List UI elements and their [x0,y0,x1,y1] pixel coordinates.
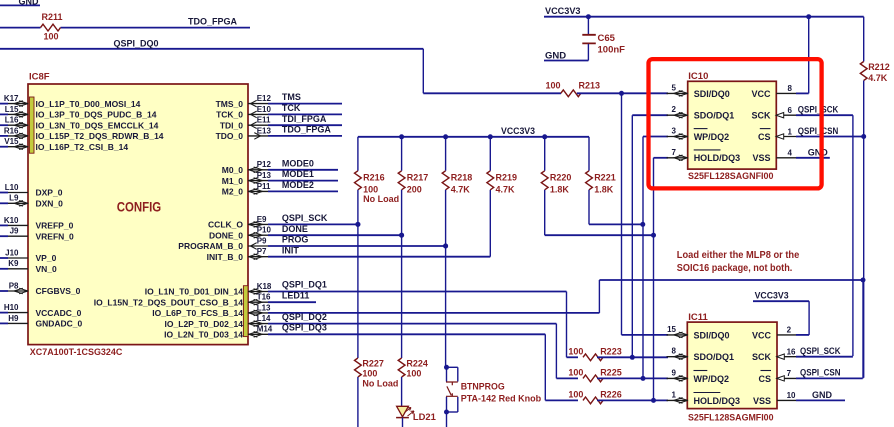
svg-text:TDO_0: TDO_0 [216,131,244,141]
svg-text:1.8K: 1.8K [550,184,570,194]
svg-text:L15: L15 [5,105,19,114]
svg-text:GND: GND [812,390,833,400]
pin 15 IC11 SDI/DQ0 [667,334,688,336]
svg-text:1.8K: 1.8K [594,184,614,194]
resistor R225 100 [583,375,603,382]
svg-text:R226: R226 [600,390,622,400]
svg-text:E9: E9 [257,215,267,224]
svg-text:E10: E10 [257,105,272,114]
svg-text:VCC3V3: VCC3V3 [545,6,581,17]
svg-text:DXN_0: DXN_0 [36,199,64,209]
svg-text:V15: V15 [4,137,19,146]
wire IC10 CS net QSPI_CSN [796,136,864,138]
svg-text:100: 100 [406,369,421,379]
svg-text:VCC: VCC [752,330,772,340]
svg-text:4.7K: 4.7K [451,184,471,194]
svg-text:VSS: VSS [752,153,770,163]
svg-text:VCCADC_0: VCCADC_0 [36,308,82,318]
svg-text:PROGRAM_B_0: PROGRAM_B_0 [178,241,243,251]
svg-text:M0_0: M0_0 [222,165,244,175]
group bar left pins [29,97,34,153]
pin P12 M0_0 net MODE0 [248,169,268,171]
svg-text:SDO/DQ1: SDO/DQ1 [694,352,735,362]
wire WP/DQ2 riser [643,136,668,138]
svg-text:L10: L10 [5,183,19,192]
svg-text:IO_L2N_T0_D03_14: IO_L2N_T0_D03_14 [164,330,243,340]
junction QSPI_DQ0 node [619,91,624,96]
svg-text:M2_0: M2_0 [222,187,244,197]
svg-text:CCLK_O: CCLK_O [208,220,243,230]
wire HOLD/DQ3 riser [654,157,669,159]
svg-text:P13: P13 [257,171,272,180]
wire IC11 SCK net QSPI_SCK [796,356,853,358]
wire SDO/DQ1 riser [632,114,668,116]
svg-text:8: 8 [672,347,677,356]
svg-text:CS: CS [758,132,771,142]
capacitor C65 [582,35,596,44]
svg-text:TCK_0: TCK_0 [216,110,243,120]
pin T16 IO_L15N_T2_DQS_DOUT_CSO_B_14 net LED11 [248,301,268,303]
junction rail [443,134,448,139]
svg-text:8: 8 [788,84,793,93]
pin L13 IO_L6P_T0_FCS_B_14 net QSPI_CSN [248,312,268,314]
svg-text:WP/DQ2: WP/DQ2 [694,132,730,142]
resistor R211 [41,24,61,31]
wire PROG down to BTNPROG [445,246,447,367]
svg-text:K18: K18 [257,282,272,291]
transistor IC10 flash body [688,81,777,169]
svg-text:H10: H10 [4,303,19,312]
junction QSPI_CSN join [861,278,866,283]
svg-text:GND: GND [808,148,829,158]
svg-text:PROG: PROG [282,235,309,245]
svg-text:2: 2 [787,326,792,335]
svg-text:IO_L3N_T0_DQS_EMCCLK_14: IO_L3N_T0_DQS_EMCCLK_14 [36,120,159,130]
svg-text:C65: C65 [598,33,616,44]
resistor R221 1.8K [588,137,590,171]
svg-text:S25FL128SAGMFI00: S25FL128SAGMFI00 [688,412,774,423]
power VCC3V3 at IC11 [753,300,809,302]
pin E12 TMS_0 net TMS [248,103,268,105]
svg-text:VN_0: VN_0 [36,264,58,274]
svg-text:SDI/DQ0: SDI/DQ0 [694,89,730,99]
svg-text:QSPI_DQ0: QSPI_DQ0 [114,39,159,49]
svg-text:100: 100 [362,369,377,379]
svg-text:QSPI_DQ3: QSPI_DQ3 [282,323,327,333]
resistor R226 100 [583,397,603,404]
pin K9 VN_0 [0,268,8,270]
wire INIT to R219 [268,256,490,258]
pin L9 DXN_0 [0,202,8,204]
pin V15 IO_L16P_T2_CSI_B_14 [0,146,8,148]
svg-text:QSPI_CSN: QSPI_CSN [798,126,839,136]
svg-text:M1_0: M1_0 [222,176,244,186]
wire C65 to GND [587,44,589,61]
svg-text:4.7K: 4.7K [868,73,888,83]
LED LD21 [397,406,409,417]
svg-text:SCK: SCK [752,352,772,362]
svg-text:VREFN_0: VREFN_0 [36,231,75,241]
svg-text:VCC: VCC [751,89,771,99]
pin P13 M1_0 net MODE1 [248,180,268,182]
svg-text:100: 100 [568,368,583,378]
svg-text:K17: K17 [4,94,19,103]
svg-text:QSPI_CSN: QSPI_CSN [800,368,841,378]
svg-text:R221: R221 [594,172,616,182]
svg-text:L9: L9 [9,194,19,203]
svg-text:QSPI_DQ1: QSPI_DQ1 [282,280,327,290]
svg-text:H9: H9 [8,314,19,323]
svg-text:TDI_FPGA: TDI_FPGA [282,114,327,124]
wire R221 to QSPI_DQ2 riser [588,190,590,225]
pin R16 IO_L15P_T2_DQS_RDWR_B_14 [0,135,8,137]
junction R212 CSN [861,134,866,139]
svg-text:R223: R223 [600,346,622,356]
svg-text:M14: M14 [257,325,273,334]
svg-text:R217: R217 [407,172,429,182]
svg-text:100nF: 100nF [598,44,626,55]
svg-text:1: 1 [788,127,793,136]
svg-text:100: 100 [363,184,378,194]
svg-text:TMS: TMS [282,92,301,102]
svg-text:CFGBVS_0: CFGBVS_0 [36,286,81,296]
wire VCC3V3 to C65 [587,17,589,34]
wire R224 to LD21 [401,377,403,406]
svg-text:TDO_FPGA: TDO_FPGA [188,17,238,27]
svg-text:IO_L15N_T2_DQS_DOUT_CSO_B_14: IO_L15N_T2_DQS_DOUT_CSO_B_14 [94,297,244,307]
svg-text:CONFIG: CONFIG [117,200,162,216]
svg-text:INIT: INIT [282,245,300,255]
svg-text:4: 4 [788,149,793,158]
pin P7 INIT_B_0 net INIT [248,256,268,258]
svg-text:LD21: LD21 [413,412,437,423]
svg-text:7: 7 [672,148,677,157]
svg-text:L13: L13 [257,303,271,312]
svg-text:BTNPROG: BTNPROG [461,382,505,393]
svg-text:IO_L2P_T0_D02_14: IO_L2P_T0_D02_14 [165,319,244,329]
push button BTNPROG [444,365,449,370]
wire TDO_FPGA net [0,27,41,29]
wire R225 to IC11 pin9 [597,377,668,379]
wire R216 to QSPI_SCK [357,190,359,225]
svg-text:TDO_FPGA: TDO_FPGA [282,125,332,135]
svg-text:Load either the MLP8 or the: Load either the MLP8 or the [677,250,800,261]
svg-text:R216: R216 [363,172,385,182]
svg-text:LED11: LED11 [282,290,310,300]
svg-text:4.7K: 4.7K [496,184,516,194]
pin 8 IC11 SDO/DQ1 [667,356,688,358]
pin 1 IC11 HOLD/DQ3 [667,399,688,401]
wire QSPI_DQ1 to R223 [268,291,567,293]
pin P10 DONE_0 net DONE [248,234,268,236]
svg-text:100: 100 [44,32,59,42]
pin J10 VP_0 [0,257,8,259]
pin L10 DXP_0 [0,192,8,194]
svg-text:QSPI_SCK: QSPI_SCK [798,104,839,114]
wire QSPI_CSN riser down [863,137,865,378]
resistor R212 4.7K [860,62,867,81]
svg-text:VP_0: VP_0 [36,253,57,263]
svg-text:R16: R16 [4,126,19,135]
svg-text:100: 100 [568,390,583,400]
resistor R227 100 No Load [355,358,362,377]
wire LED11 stub [268,301,316,303]
wire R226 to IC11 pin1 [597,399,668,401]
power VCC3V3 pullup rail [358,136,589,138]
wire QSPI_SCK down to R227 [357,224,359,358]
svg-text:TDI_0: TDI_0 [220,120,243,130]
svg-text:GND: GND [545,50,566,61]
wire R212 to QSPI_CSN [863,81,865,138]
pin J9 VREFN_0 [0,235,8,237]
pin H10 VCCADC_0 [0,312,8,314]
wire QSPI_DQ3 to R226 [268,333,545,335]
junction rail [542,134,547,139]
svg-text:MODE0: MODE0 [282,158,314,168]
wire QSPI_CSN riser bottom [862,280,864,378]
pin P9 PROGRAM_B_0 net PROG [248,245,268,247]
svg-text:10: 10 [787,391,796,400]
svg-text:P9: P9 [257,236,267,245]
wire IC10 VCC to rail [796,92,809,94]
pin E9 CCLK_O net QSPI_SCK [248,223,268,225]
svg-text:16: 16 [787,348,796,357]
svg-text:QSPI_DQ2: QSPI_DQ2 [282,312,327,322]
svg-text:DONE_0: DONE_0 [209,230,243,240]
resistor R224 100 [398,358,405,377]
svg-text:IC10: IC10 [688,71,708,82]
svg-text:TMS_0: TMS_0 [216,99,244,109]
wire R227 down [357,377,359,427]
pin K10 VREFP_0 [0,224,8,226]
pin H9 GNDADC_0 [0,322,8,324]
pin 16 IC11 SCK [777,356,796,358]
resistor R220 1.8K [544,137,546,171]
svg-text:15: 15 [667,325,676,334]
svg-text:P8: P8 [9,281,19,290]
wire R223 to IC11 pin8 [597,356,668,358]
svg-text:L16: L16 [5,116,19,125]
svg-text:SDO/DQ1: SDO/DQ1 [694,111,735,121]
resistor R223 100 [583,354,603,361]
wire R217 to DONE [401,190,403,235]
svg-text:IO_L3P_T0_DQS_PUDC_B_14: IO_L3P_T0_DQS_PUDC_B_14 [36,110,157,120]
svg-text:IO_L1P_T0_D00_MOSI_14: IO_L1P_T0_D00_MOSI_14 [36,99,141,109]
overbar CS IC11 [761,370,772,372]
svg-text:9: 9 [672,368,677,377]
wire QSPI_DQ0 riser to IC11 [621,93,623,335]
svg-text:DONE: DONE [282,224,308,234]
svg-text:L14: L14 [257,314,271,323]
svg-text:DXP_0: DXP_0 [36,188,63,198]
pin K18 IO_L1N_T0_D01_DIN_14 net QSPI_DQ1 [248,291,268,293]
svg-text:HOLD/DQ3: HOLD/DQ3 [694,153,741,163]
overbar CS IC10 [760,128,771,130]
svg-text:P10: P10 [257,226,272,235]
svg-text:HOLD/DQ3: HOLD/DQ3 [694,396,741,406]
svg-text:IO_L1N_T0_D01_DIN_14: IO_L1N_T0_D01_DIN_14 [145,287,244,297]
pin 8 IC10 VCC [776,92,796,94]
pin 4 IC10 VSS [776,157,796,159]
pin 1 IC10 CS [776,136,796,138]
svg-text:P7: P7 [257,247,267,256]
resistor R219 4.7K [489,137,491,171]
wire DONE down to R224 [401,235,403,358]
svg-text:SOIC16 package, not both.: SOIC16 package, not both. [677,263,793,274]
junction C65 tap [586,14,591,19]
svg-text:100: 100 [568,346,583,356]
wire QSPI_DQ2 to R225 [268,323,556,325]
svg-text:VREFP_0: VREFP_0 [36,221,74,231]
svg-text:R212: R212 [868,62,890,72]
svg-text:E13: E13 [257,126,272,135]
svg-text:100: 100 [545,81,560,91]
pin K17 IO_L1P_T0_D00_MOSI_14 [0,103,8,105]
svg-text:QSPI_SCK: QSPI_SCK [282,213,328,223]
pin 9 IC11 WP/DQ2 [667,377,688,379]
svg-text:R213: R213 [579,81,601,91]
svg-text:TCK: TCK [282,103,301,113]
group bar right DQ pins [243,286,248,337]
svg-text:IO_L6P_T0_FCS_B_14: IO_L6P_T0_FCS_B_14 [152,308,243,318]
wire L13 to QSPI_CSN riser [268,312,599,314]
svg-text:QSPI_SCK: QSPI_SCK [800,346,841,356]
svg-text:J9: J9 [10,227,19,236]
svg-text:IC11: IC11 [688,312,708,323]
ground GND at IC11 VSS [796,399,845,401]
resistor R213 [561,90,581,97]
junction VCC IC10 tap [806,14,811,19]
svg-text:GND: GND [19,0,40,6]
svg-text:P11: P11 [257,182,271,191]
svg-text:R225: R225 [600,368,622,378]
svg-text:IC8F: IC8F [29,72,50,83]
pin E11 TDI_0 net TDI_FPGA [248,124,268,126]
svg-text:R227: R227 [362,359,384,369]
svg-text:VCC3V3: VCC3V3 [755,291,789,302]
pin L16 IO_L3N_T0_DQS_EMCCLK_14 [0,124,8,126]
transistor IC11 flash body [687,322,777,409]
svg-text:E12: E12 [257,94,272,103]
svg-text:S25FL128SAGNFI00: S25FL128SAGNFI00 [688,171,774,182]
wire LD21 down [402,418,404,427]
pin L15 IO_L3P_T0_DQS_PUDC_B_14 [0,113,8,115]
pin 5 IC10 SDI/DQ0 [667,92,688,94]
svg-text:7: 7 [787,369,792,378]
svg-text:No Load: No Load [362,378,398,388]
wire IC10 SCK net QSPI_SCK [796,114,853,116]
svg-text:WP/DQ2: WP/DQ2 [694,374,730,384]
svg-text:200: 200 [407,184,422,194]
power VCC3V3 top rail [544,16,864,18]
resistor R216 100 [357,137,359,171]
svg-text:K9: K9 [8,259,19,268]
svg-text:R218: R218 [451,172,473,182]
svg-text:No Load: No Load [363,194,399,204]
svg-text:3: 3 [672,127,677,136]
pin 7 IC10 HOLD/DQ3 [667,157,688,159]
pin 10 IC11 VSS [777,399,796,401]
pin P11 M2_0 net MODE2 [248,190,268,192]
svg-text:VSS: VSS [753,396,771,406]
wire VCC3V3 to R212 [863,17,865,62]
pin E10 TCK_0 net TCK [248,113,268,115]
junction rail [399,134,404,139]
svg-text:MODE2: MODE2 [282,180,314,190]
svg-text:INIT_B_0: INIT_B_0 [207,252,244,262]
svg-text:J10: J10 [5,248,19,257]
svg-text:SDI/DQ0: SDI/DQ0 [694,330,730,340]
pin M14 IO_L2N_T0_D03_14 net QSPI_DQ3 [248,333,268,335]
wire R218 to PROG [445,190,447,246]
svg-text:R219: R219 [496,172,518,182]
wire R213 to IC10 pin5 [577,92,668,94]
svg-text:IO_L16P_T2_CSI_B_14: IO_L16P_T2_CSI_B_14 [36,142,129,152]
svg-text:PTA-142 Red Knob: PTA-142 Red Knob [461,393,542,404]
pin 6 IC10 SCK [776,114,796,116]
svg-text:R220: R220 [550,172,572,182]
resistor R217 200 [401,137,403,171]
pin 2 IC11 VCC [777,334,796,336]
svg-text:VCC3V3: VCC3V3 [501,126,535,137]
pin 7 IC11 CS [777,377,796,379]
svg-text:E11: E11 [257,116,271,125]
resistor R218 4.7K [445,137,447,171]
junction rail [488,134,493,139]
svg-text:6: 6 [788,106,793,115]
svg-text:T16: T16 [257,293,271,302]
svg-text:GNDADC_0: GNDADC_0 [36,319,83,329]
svg-text:R211: R211 [42,12,63,22]
pin 2 IC10 SDO/DQ1 [667,114,688,116]
wire BTNPROG down [446,412,448,427]
svg-text:IO_L15P_T2_DQS_RDWR_B_14: IO_L15P_T2_DQS_RDWR_B_14 [36,131,164,141]
wire R220 to QSPI_DQ3 riser [544,190,546,235]
svg-text:XC7A100T-1CSG324C: XC7A100T-1CSG324C [30,347,123,358]
svg-text:K10: K10 [4,216,19,225]
highlight red rectangle MLP8 package [649,59,822,188]
pin L14 IO_L2P_T0_D02_14 net QSPI_DQ2 [248,323,268,325]
svg-text:MODE1: MODE1 [282,169,314,179]
pin E13 TDO_0 net TDO_FPGA [248,135,268,137]
svg-text:P12: P12 [257,160,272,169]
ground GND at IC10 VSS [796,157,830,159]
svg-text:R224: R224 [406,359,428,369]
svg-text:1: 1 [672,390,677,399]
op-amp IC8F FPGA block body [28,84,248,345]
wire IC11 CS net QSPI_CSN [796,377,863,379]
wire QSPI_DQ0 from FPGA [0,48,423,50]
svg-text:CS: CS [758,374,771,384]
svg-text:2: 2 [672,105,677,114]
pin P8 CFGBVS_0 [0,290,8,292]
svg-text:5: 5 [672,83,677,92]
svg-text:SCK: SCK [751,111,771,121]
pin 3 IC10 WP/DQ2 [667,136,688,138]
node GND top-left [0,4,40,6]
